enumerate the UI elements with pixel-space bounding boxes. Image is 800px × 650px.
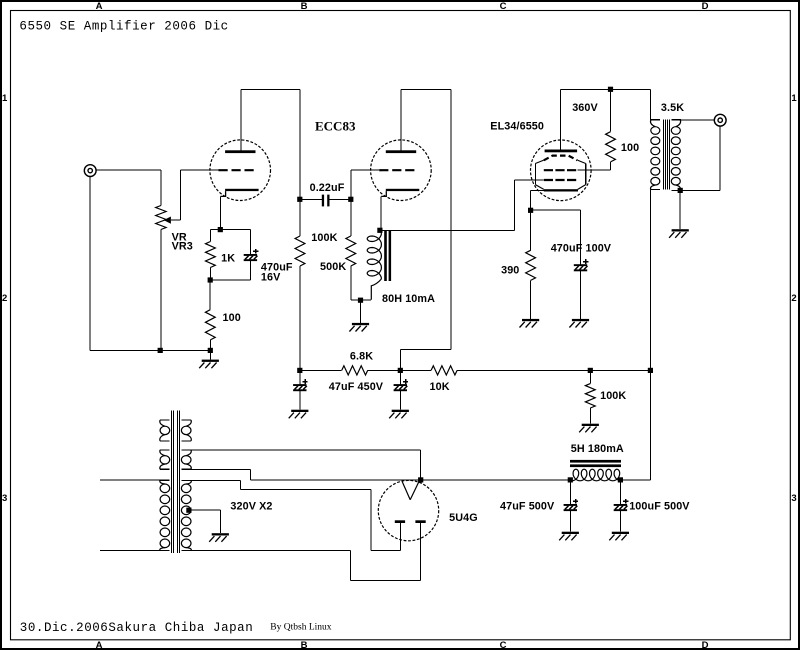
label 47uF 500V xyxy=(500,501,555,513)
wire R10 ground stub xyxy=(589,408,591,424)
node 1K bottom junction xyxy=(208,277,213,282)
wire cathode junction to choke top xyxy=(380,230,382,233)
node V1b cathode junction xyxy=(377,228,382,233)
resistor R9 10K xyxy=(431,366,457,375)
wire cathode junction to 1K top xyxy=(210,230,220,242)
wire cathode junction to C2 top xyxy=(220,230,250,255)
svg-text:2: 2 xyxy=(2,293,7,304)
label 3.5K xyxy=(661,102,684,114)
wire 1K bottom xyxy=(209,268,211,281)
wire junction to ground stub xyxy=(360,300,362,323)
wire VR3 bottom to ground rail xyxy=(160,230,162,351)
inductor CH2 5H choke coil xyxy=(572,469,621,481)
label 80H 10mA xyxy=(382,293,435,305)
label 16V xyxy=(261,271,281,283)
wire winding lead to right filament xyxy=(191,523,421,580)
label 470uF xyxy=(261,261,293,273)
transformer T1 heater winding left xyxy=(160,420,170,441)
ground C7 xyxy=(609,532,629,541)
label 360V xyxy=(572,102,598,114)
label 100 screen xyxy=(621,142,639,154)
svg-text:3: 3 xyxy=(791,493,796,504)
label 47uF 450V xyxy=(329,381,384,393)
node choke right junction xyxy=(618,477,623,482)
label 6.8K xyxy=(350,350,373,362)
svg-text:16V: 16V xyxy=(261,271,281,283)
svg-text:500K: 500K xyxy=(320,261,346,273)
wire C7 drop xyxy=(619,480,621,504)
label 100uF 500V xyxy=(629,501,690,513)
svg-text:6550 SE Amplifier 2006 Dic: 6550 SE Amplifier 2006 Dic xyxy=(19,20,228,34)
node HV center tap xyxy=(186,508,191,513)
wire coupling node down to R5 xyxy=(350,199,352,236)
wire cathode junction to EL34 grid xyxy=(380,180,544,230)
svg-text:C: C xyxy=(500,640,507,650)
svg-text:2: 2 xyxy=(791,293,796,304)
node rectifier plate junction xyxy=(418,477,423,482)
wire jack to VR3 top xyxy=(96,170,161,205)
wire V2 cathode lead xyxy=(531,190,544,210)
pentode V2 EL34/6550 xyxy=(531,140,592,201)
svg-text:5U4G: 5U4G xyxy=(449,512,478,524)
grid label 3 left xyxy=(2,493,7,504)
svg-text:100: 100 xyxy=(621,142,639,154)
capacitor C6 47uF 500V xyxy=(564,499,579,511)
ground C4a xyxy=(289,410,309,419)
svg-text:5H 180mA: 5H 180mA xyxy=(571,443,624,455)
wire secondary ground stub xyxy=(679,190,681,229)
wire OPT secondary top to output jack xyxy=(681,119,714,121)
grid label D top xyxy=(702,1,709,12)
inductor CH1 80H choke coil xyxy=(367,233,381,300)
rectifier V3 5U4G xyxy=(378,480,438,540)
transformer T1 HV winding 320V xyxy=(181,480,191,550)
label ECC83 xyxy=(315,118,356,133)
svg-text:100: 100 xyxy=(223,312,241,324)
wire OPT primary top lead xyxy=(649,89,651,120)
wire C2 bottom to junction xyxy=(210,261,250,280)
wire plate node down to R4 xyxy=(299,199,301,236)
wire C6 drop xyxy=(569,480,571,504)
wire input ground rail xyxy=(90,349,211,351)
label EL34/6550 xyxy=(490,121,544,133)
label 0.22uF xyxy=(310,182,345,194)
wire junction to R3 top xyxy=(209,280,211,310)
grid label 3 right xyxy=(791,493,796,504)
svg-text:1: 1 xyxy=(2,93,8,104)
footer credit text xyxy=(270,623,331,633)
grid label 2 left xyxy=(2,293,7,304)
ground R6 xyxy=(520,319,540,328)
wire C7 ground stub xyxy=(619,511,621,532)
wire C4b drop xyxy=(399,370,401,384)
transformer T2 secondary winding xyxy=(671,120,681,191)
wire HV bottom lead to plate line xyxy=(191,469,570,480)
transformer T2 primary winding xyxy=(650,120,659,190)
wire C3 right to node xyxy=(330,198,351,200)
grid label A bottom xyxy=(96,640,103,650)
node coupling left xyxy=(297,197,302,202)
label 320V X2 xyxy=(230,500,272,512)
grid label C bottom xyxy=(500,640,507,650)
inductor CH2 5H core bars xyxy=(570,460,621,467)
transformer T1 rectifier winding left xyxy=(160,450,170,469)
svg-text:B: B xyxy=(301,1,308,12)
node VR3 ground rail junction xyxy=(158,348,163,353)
transformer T1 primary winding (mains) xyxy=(160,480,170,550)
resistor R8 6.8K xyxy=(342,366,368,375)
wire rail mid segment xyxy=(368,369,431,371)
label 470uF 100V xyxy=(551,243,612,255)
node rail 100K junction xyxy=(588,368,593,373)
node coupling right xyxy=(348,197,353,202)
svg-text:320V X2: 320V X2 xyxy=(230,500,272,512)
wire rail to ground stub xyxy=(209,350,211,359)
label 100K bleeder xyxy=(600,390,626,402)
label VR3 xyxy=(172,240,193,252)
wire V2 plate riser xyxy=(559,89,561,149)
svg-text:B: B xyxy=(301,640,308,650)
resistor R3 100 xyxy=(205,310,215,340)
svg-text:47uF 500V: 47uF 500V xyxy=(500,501,555,513)
label 5U4G xyxy=(449,512,478,524)
label 10K xyxy=(430,381,450,393)
svg-text:100K: 100K xyxy=(311,232,337,244)
wire cathode junction to C5 xyxy=(531,210,581,264)
wire V1b plate top run xyxy=(401,88,451,90)
transformer T2 core xyxy=(664,120,670,190)
node V1a cathode junction xyxy=(218,227,223,232)
svg-text:A: A xyxy=(96,1,103,12)
wire winding lead to left filament xyxy=(191,480,400,550)
wire R5 bottom elbow xyxy=(351,266,371,300)
node 500K choke ground junction xyxy=(358,298,363,303)
transformer T1 core xyxy=(172,411,180,553)
svg-text:By Qtbsh Linux: By Qtbsh Linux xyxy=(270,623,331,633)
svg-text:360V: 360V xyxy=(572,102,598,114)
resistor R7 100 screen xyxy=(606,132,616,162)
svg-text:10K: 10K xyxy=(430,381,450,393)
resistor R4 100K xyxy=(295,236,305,266)
resistor R5 500K xyxy=(346,236,356,266)
label 500K xyxy=(320,261,346,273)
capacitor C7 100uF 500V xyxy=(614,499,629,511)
svg-text:470uF 100V: 470uF 100V xyxy=(551,243,612,255)
wire mains line lower xyxy=(100,550,160,552)
ground OPT secondary xyxy=(669,229,689,238)
wire mains line upper xyxy=(100,479,160,481)
node choke left junction xyxy=(568,477,573,482)
wire cathode junction to R6 xyxy=(530,210,532,250)
grid label 2 right xyxy=(791,293,796,304)
wire R6 to ground xyxy=(530,280,532,319)
wire plate line down to coupling node xyxy=(299,89,301,199)
label 5H 180mA xyxy=(571,443,624,455)
ground center tap xyxy=(209,533,229,542)
svg-text:A: A xyxy=(96,640,103,650)
triode V1a (ECC83 first half) xyxy=(210,140,271,201)
wire R7 to screen grid xyxy=(578,162,611,170)
capacitor C2 470uF 16V xyxy=(244,249,259,261)
node V2 cathode junction xyxy=(528,208,533,213)
wire V2 plate line to OPT xyxy=(560,88,650,90)
svg-text:1K: 1K xyxy=(221,252,235,264)
wire rail right segment xyxy=(457,369,650,371)
wire V1a plate top run xyxy=(241,88,300,90)
node rail left cap junction xyxy=(297,368,302,373)
svg-text:30.Dic.2006Sakura Chiba Japan: 30.Dic.2006Sakura Chiba Japan xyxy=(20,621,254,635)
grid label D bottom xyxy=(702,640,709,650)
node input ground rail end xyxy=(208,348,213,353)
wire B+ drop to rail jog xyxy=(400,89,451,370)
wire R3 bottom to rail xyxy=(209,340,211,351)
ground C4b xyxy=(389,410,409,419)
transformer T1 rectifier winding right xyxy=(181,450,191,469)
node rail B+ jog junction xyxy=(398,368,403,373)
svg-text:1: 1 xyxy=(791,93,797,104)
svg-text:100K: 100K xyxy=(600,390,626,402)
ground C5 xyxy=(569,319,589,328)
node OPT secondary ground junction xyxy=(678,188,683,193)
wire VR3 wiper to V1a grid xyxy=(181,170,219,220)
svg-text:6.8K: 6.8K xyxy=(350,350,373,362)
svg-text:D: D xyxy=(702,640,709,650)
wire V1b cathode drop xyxy=(380,196,382,230)
ground input stage xyxy=(199,360,219,369)
wire HV top lead to rectifier plate xyxy=(191,450,421,480)
wire C6 ground stub xyxy=(569,511,571,532)
wire C4b ground stub xyxy=(399,391,401,410)
svg-text:47uF 450V: 47uF 450V xyxy=(329,381,384,393)
svg-text:3: 3 xyxy=(2,493,7,504)
capacitor C3 0.22uF xyxy=(322,195,330,207)
wire OPT primary bottom to B+ line xyxy=(649,190,651,481)
footer date text xyxy=(20,621,254,635)
svg-text:0.22uF: 0.22uF xyxy=(310,182,345,194)
grid label C top xyxy=(500,1,507,12)
transformer T1 heater winding right xyxy=(181,420,191,441)
triode V1b (ECC83 second half) xyxy=(371,140,432,201)
ground C6 xyxy=(559,532,579,541)
node rail B+ line junction xyxy=(648,368,653,373)
svg-text:100uF 500V: 100uF 500V xyxy=(629,501,690,513)
svg-text:3.5K: 3.5K xyxy=(661,102,684,114)
wire V1a cathode drop xyxy=(219,196,221,229)
wire V1a plate riser xyxy=(240,89,242,150)
svg-text:C: C xyxy=(500,1,507,12)
wire center tap to ground xyxy=(189,510,220,533)
wire R4 bottom to supply rail xyxy=(299,266,301,370)
wire C4a ground stub xyxy=(299,391,301,410)
output jack J2 xyxy=(714,114,726,126)
capacitor C4a 47uF 450V xyxy=(293,379,308,391)
label 390 xyxy=(501,264,519,276)
wire node to C3 left xyxy=(300,198,322,200)
wire C4a drop xyxy=(299,370,301,384)
svg-text:390: 390 xyxy=(501,264,519,276)
label VR xyxy=(172,231,187,243)
label 100 cathode xyxy=(223,312,241,324)
capacitor C4b 47uF 450V xyxy=(394,379,409,391)
label 100K plate xyxy=(311,232,337,244)
svg-text:80H 10mA: 80H 10mA xyxy=(382,293,435,305)
title text xyxy=(19,20,228,34)
ground V1b stage xyxy=(349,323,369,332)
grid label B bottom xyxy=(301,640,308,650)
wire coupling node to V1b grid xyxy=(351,170,379,199)
label 1K xyxy=(221,252,235,264)
grid label B top xyxy=(301,1,308,12)
resistor R2 1K cathode xyxy=(206,242,216,268)
svg-text:ECC83: ECC83 xyxy=(315,118,356,133)
wire choke right to B+ line xyxy=(620,479,650,481)
inductor CH1 core bars xyxy=(384,231,391,282)
wire junction down to R7 xyxy=(610,89,612,131)
resistor R10 100K bleeder xyxy=(585,384,595,408)
resistor R6 390 xyxy=(526,250,536,280)
ground R10 xyxy=(579,424,599,433)
capacitor C5 470uF 100V xyxy=(574,259,589,271)
svg-text:D: D xyxy=(702,1,709,12)
node screen feed junction xyxy=(608,87,613,92)
wire jack ground drop xyxy=(89,176,91,350)
wire OPT secondary bottom xyxy=(681,126,720,190)
input jack J1 xyxy=(84,165,96,177)
wire V1b plate riser xyxy=(400,89,402,150)
wire rail left segment xyxy=(300,369,342,371)
wire 100K bleeder drop xyxy=(589,370,591,383)
potentiometer VR3 xyxy=(156,206,181,230)
grid label 1 left xyxy=(2,93,8,104)
svg-text:VR3: VR3 xyxy=(172,240,193,252)
grid label A top xyxy=(96,1,103,12)
wire C5 to ground xyxy=(580,271,582,319)
svg-text:EL34/6550: EL34/6550 xyxy=(490,121,544,133)
grid label 1 right xyxy=(791,93,797,104)
